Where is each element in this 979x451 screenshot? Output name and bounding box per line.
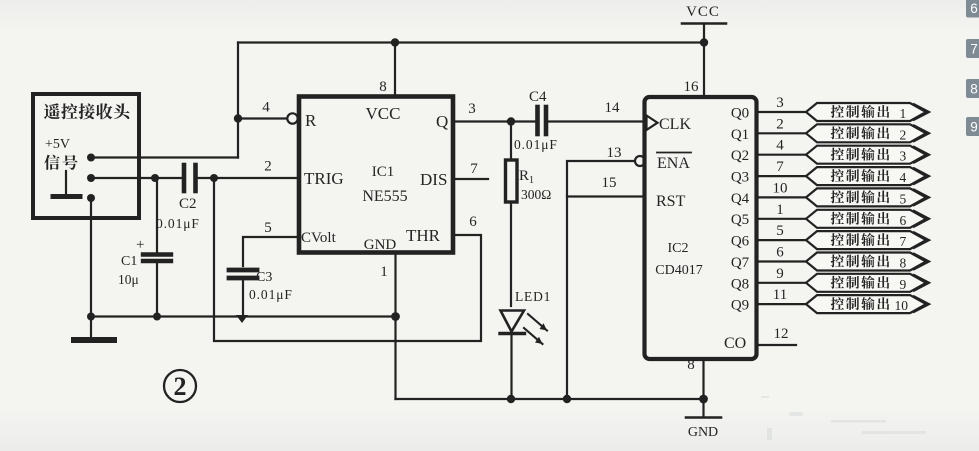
- NE555 designator IC1: [372, 164, 395, 180]
- svg-text:+: +: [136, 237, 144, 253]
- CD4017 pin name CLK: [659, 116, 691, 133]
- svg-text:Q6: Q6: [731, 234, 750, 250]
- power net VCC: [682, 4, 726, 97]
- wire output Q7 pin 6: [757, 245, 806, 262]
- svg-text:3: 3: [776, 95, 784, 111]
- CD4017 output Q6 pin name: [731, 234, 750, 250]
- svg-text:DIS: DIS: [420, 170, 447, 189]
- svg-text:1: 1: [776, 202, 784, 218]
- node receiver +5V terminal: [87, 154, 95, 162]
- svg-text:6: 6: [776, 245, 784, 261]
- svg-text:C1: C1: [121, 254, 137, 269]
- CD4017 output Q3 pin name: [731, 170, 749, 186]
- svg-text:TRIG: TRIG: [304, 169, 344, 188]
- svg-text:GND: GND: [364, 237, 397, 253]
- junction IC2 ground at bottom rail: [699, 395, 708, 404]
- svg-text:2: 2: [174, 372, 187, 401]
- wire DIS pin 7 stub: [453, 161, 488, 179]
- junction ground rail left end: [87, 313, 95, 321]
- NE555 pin name THR: [406, 226, 441, 245]
- svg-text:Q8: Q8: [731, 276, 749, 292]
- wire RST pin 15 to ground branch: [567, 175, 644, 197]
- svg-text:6: 6: [469, 214, 477, 230]
- CLK input wedge: [647, 116, 658, 131]
- wire receiver lower terminal to ground rail: [90, 198, 92, 317]
- svg-text:6: 6: [970, 1, 978, 16]
- svg-text:10μ: 10μ: [118, 272, 139, 287]
- output flag 控制输出 2: [806, 124, 929, 142]
- wire reset pin 4 of NE555: [238, 100, 287, 119]
- output flag 控制输出 10: [806, 295, 929, 313]
- svg-text:Q4: Q4: [731, 191, 750, 207]
- inverting bubble on NE555 R input: [287, 113, 297, 123]
- svg-text:2: 2: [776, 116, 784, 132]
- resistor R1: [506, 122, 552, 307]
- NE555 pin name DIS: [420, 170, 447, 189]
- svg-text:3: 3: [900, 149, 907, 164]
- CD4017 output Q8 pin name: [731, 276, 749, 292]
- svg-text:GND: GND: [688, 425, 718, 440]
- junction Q output node: [507, 117, 515, 125]
- svg-text:+5V: +5V: [45, 137, 70, 152]
- op IC NE555 U1 box: [299, 97, 453, 253]
- wire output Q4 pin 10: [757, 180, 806, 197]
- junction on VCC rail at IC2 supply: [700, 38, 708, 46]
- share badge 8: [966, 79, 979, 98]
- wire left branch of VCC rail down to +5V line: [237, 43, 239, 158]
- wire output Q5 pin 1: [757, 202, 806, 219]
- svg-text:15: 15: [602, 175, 617, 191]
- wire C2 to TRIG pin 2: [198, 159, 299, 179]
- svg-text:CD4017: CD4017: [655, 263, 702, 278]
- label 信号 (signal): [44, 155, 77, 170]
- svg-text:12: 12: [774, 326, 789, 342]
- svg-text:7: 7: [970, 42, 978, 57]
- wire C4 to CLK pin 14: [549, 100, 646, 122]
- ground rail left: [91, 315, 396, 317]
- inverting bubble on ENA: [635, 156, 645, 166]
- svg-text:5: 5: [264, 220, 272, 236]
- label: remote receiver 遥控接收头: [44, 103, 130, 119]
- wire output Q3 pin 7: [757, 159, 806, 176]
- output flag 控制输出 1: [806, 103, 929, 121]
- svg-text:8: 8: [970, 82, 978, 97]
- svg-text:2: 2: [264, 159, 272, 175]
- NE555 part number: [362, 188, 407, 205]
- CD4017 designator IC2: [668, 241, 689, 256]
- CD4017 pin name CO: [724, 335, 746, 352]
- remote control receiver module box: [33, 94, 139, 218]
- ground symbol lower left: [74, 317, 114, 341]
- svg-text:CVolt: CVolt: [301, 230, 337, 246]
- wire NE555 pin 8 to VCC rail: [379, 43, 395, 97]
- svg-text:IC1: IC1: [372, 164, 395, 180]
- svg-text:5: 5: [776, 223, 784, 239]
- svg-text:7: 7: [470, 161, 478, 177]
- svg-text:7: 7: [776, 159, 784, 175]
- wire output Q9 pin 11: [757, 287, 806, 304]
- CD4017 output Q7 pin name: [731, 255, 750, 271]
- svg-text:VCC: VCC: [366, 104, 401, 123]
- NE555 pin name Q: [436, 112, 448, 131]
- node receiver signal terminal: [87, 174, 95, 182]
- output flag 控制输出 7: [806, 231, 929, 249]
- capacitor C4: [514, 89, 558, 152]
- svg-text:8: 8: [687, 357, 695, 373]
- svg-text:Q1: Q1: [731, 127, 749, 143]
- counter IC2 CD4017 box: [645, 97, 757, 359]
- junction C1 tap on signal line: [151, 174, 159, 182]
- wire output Q1 pin 2: [757, 116, 806, 133]
- svg-text:13: 13: [607, 145, 622, 161]
- CD4017 output Q1 pin name: [731, 127, 749, 143]
- NE555 pin name CVolt: [301, 230, 337, 246]
- svg-text:11: 11: [773, 287, 787, 303]
- svg-text:C3: C3: [256, 270, 272, 285]
- CD4017 pin name RST: [656, 193, 686, 210]
- svg-text:C4: C4: [529, 89, 547, 105]
- ground symbol inside receiver: [53, 171, 80, 197]
- output flag 控制输出 3: [806, 146, 929, 164]
- faint scan smudges: [761, 396, 926, 440]
- capacitor C2: [156, 165, 200, 231]
- svg-text:0.01μF: 0.01μF: [249, 287, 293, 302]
- IC2 pin 16 label: [684, 79, 700, 95]
- svg-text:3: 3: [468, 101, 476, 117]
- svg-text:VCC: VCC: [686, 4, 720, 20]
- svg-text:4: 4: [776, 138, 784, 154]
- output flag 控制输出 4: [806, 167, 929, 185]
- svg-text:9: 9: [970, 120, 978, 135]
- NE555 pin name R: [305, 111, 317, 130]
- svg-text:NE555: NE555: [362, 188, 407, 205]
- CD4017 part number: [655, 263, 702, 278]
- share badge 7: [966, 39, 979, 58]
- junction TRIG/THR feedback node: [210, 174, 218, 182]
- svg-text:Q: Q: [436, 112, 448, 131]
- NE555 pin name VCC: [366, 104, 401, 123]
- svg-text:300Ω: 300Ω: [521, 187, 551, 202]
- figure number circled 2: [164, 370, 196, 402]
- svg-text:6: 6: [900, 213, 907, 228]
- junction on VCC rail at NE555 pin 8: [391, 38, 399, 46]
- NE555 pin name GND: [364, 237, 397, 253]
- svg-text:CO: CO: [724, 335, 746, 352]
- label +5V: [45, 137, 70, 152]
- output flag 控制输出 5: [806, 188, 929, 206]
- junction LED at ground rail: [507, 395, 515, 403]
- svg-text:8: 8: [900, 256, 907, 271]
- wire output Q8 pin 9: [757, 266, 806, 283]
- svg-text:8: 8: [379, 79, 387, 95]
- svg-text:1: 1: [380, 264, 388, 280]
- wire ENA pin 13 to ground: [567, 145, 635, 399]
- junction ENA at ground rail: [563, 395, 571, 403]
- CD4017 output Q2 pin name: [731, 148, 749, 164]
- svg-text:C2: C2: [179, 196, 197, 212]
- svg-text:0.01μF: 0.01μF: [156, 216, 200, 231]
- wire NE555 Q output pin 3: [453, 101, 535, 122]
- svg-text:THR: THR: [406, 226, 441, 245]
- svg-text:RST: RST: [656, 193, 686, 210]
- svg-text:4: 4: [262, 100, 270, 116]
- bottom ground rail: [396, 398, 704, 400]
- svg-text:LED1: LED1: [515, 289, 551, 304]
- NE555 pin 6 label: [469, 214, 477, 230]
- CD4017 output Q4 pin name: [731, 191, 750, 207]
- svg-text:10: 10: [895, 298, 909, 313]
- svg-text:2: 2: [900, 127, 907, 142]
- NE555 pin name TRIG: [304, 169, 344, 188]
- wire NE555 GND pin1 down to bottom rail: [394, 253, 396, 400]
- wire output Q2 pin 4: [757, 138, 806, 155]
- wire TRIG-THR loop: [214, 178, 481, 341]
- junction node pin4 branch: [234, 114, 242, 122]
- wire top VCC rail: [238, 41, 704, 43]
- svg-text:4: 4: [900, 170, 907, 185]
- svg-text:ENA: ENA: [657, 155, 690, 172]
- wire output Q6 pin 5: [757, 223, 806, 240]
- svg-text:14: 14: [605, 100, 621, 116]
- NE555 pin 1 label: [380, 264, 388, 280]
- junction pin1 wire crossing ground rail: [391, 312, 400, 321]
- svg-text:Q0: Q0: [731, 106, 749, 122]
- svg-text:IC2: IC2: [668, 241, 689, 256]
- wire IC2 GND pin 8: [687, 357, 703, 417]
- CD4017 output Q5 pin name: [731, 212, 749, 228]
- node receiver lower terminal: [87, 194, 95, 202]
- svg-text:9: 9: [776, 266, 784, 282]
- svg-text:Q7: Q7: [731, 255, 750, 271]
- capacitor C1 electrolytic: [118, 178, 171, 317]
- svg-text:CLK: CLK: [659, 116, 691, 133]
- ground symbol GND bottom right: [686, 418, 721, 441]
- output flag 控制输出 9: [806, 274, 929, 292]
- junction C3 on ground rail: [236, 315, 248, 323]
- svg-text:Q9: Q9: [731, 298, 749, 314]
- svg-text:5: 5: [900, 191, 907, 206]
- share badge 6: [966, 0, 979, 18]
- CD4017 pin name ENA with overline: [657, 153, 691, 173]
- CD4017 output Q9 pin name: [731, 298, 749, 314]
- share badge 9: [966, 117, 979, 136]
- svg-text:10: 10: [773, 180, 788, 196]
- wire LED cathode to ground rail: [510, 334, 512, 399]
- wire output Q0 pin 3: [757, 95, 806, 112]
- svg-text:7: 7: [900, 234, 907, 249]
- capacitor C3: [229, 220, 299, 317]
- wire signal line to C2: [91, 177, 182, 179]
- svg-text:1: 1: [900, 106, 907, 121]
- svg-text:Q5: Q5: [731, 212, 749, 228]
- CD4017 output Q0 pin name: [731, 106, 749, 122]
- LED1 diode: [500, 289, 551, 344]
- svg-text:16: 16: [684, 79, 700, 95]
- svg-text:0.01μF: 0.01μF: [514, 137, 558, 152]
- output flag 控制输出 8: [806, 253, 929, 271]
- junction C1 on ground rail: [153, 313, 161, 321]
- wire CO pin 12 stub: [757, 326, 797, 345]
- svg-text:Q3: Q3: [731, 170, 749, 186]
- output flag 控制输出 6: [806, 210, 929, 228]
- svg-text:R: R: [305, 111, 317, 130]
- svg-text:9: 9: [900, 277, 907, 292]
- svg-text:Q2: Q2: [731, 148, 749, 164]
- wire receiver +5V to VCC rail branch: [91, 156, 238, 158]
